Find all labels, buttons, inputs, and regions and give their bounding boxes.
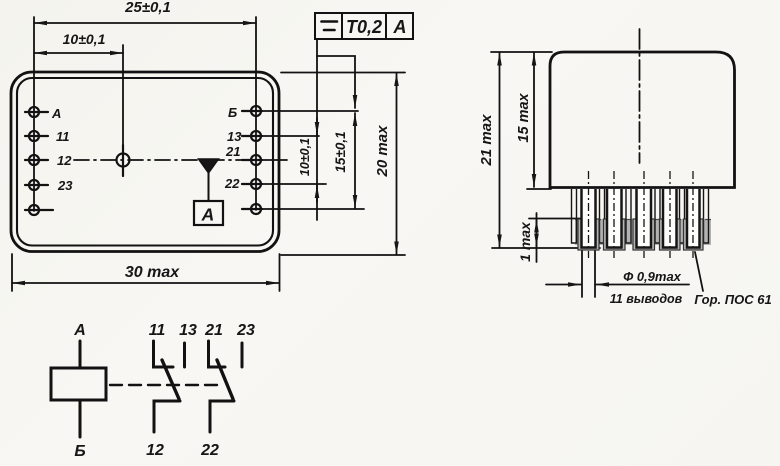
extension line: row 21 short <box>262 159 287 161</box>
contact 22 terminal <box>210 401 234 432</box>
leader to Гор.ПОС 61 <box>695 252 703 291</box>
wire from coil to Б <box>79 400 82 437</box>
dimension 15 max line <box>533 53 535 188</box>
relay body outline (side view) <box>550 52 735 188</box>
svg-text:Ф 0,9max: Ф 0,9max <box>623 269 682 284</box>
extension line: tinned band top <box>529 218 581 220</box>
pin A (top view) <box>25 107 48 117</box>
extension line: bottom row to 15-dim <box>262 208 364 210</box>
svg-text:15±0,1: 15±0,1 <box>333 131 348 172</box>
datum box A <box>194 201 223 225</box>
pin Б (top view) <box>242 106 262 116</box>
svg-text:12: 12 <box>57 153 72 168</box>
pin 23 (top view) <box>25 180 48 190</box>
extension line: body bottom to 20-dim <box>281 254 405 256</box>
svg-text:11: 11 <box>56 129 70 144</box>
pin 21 (top view) <box>242 155 262 165</box>
svg-text:22: 22 <box>224 176 240 191</box>
Ф0,9 extension lines from pin 1 edges <box>581 250 583 297</box>
contact arm 21-22 <box>217 360 233 399</box>
front pin 1 <box>582 189 596 248</box>
svg-text:11: 11 <box>149 322 166 339</box>
svg-text:А: А <box>201 205 215 225</box>
centre cross (mounting centre) <box>117 145 130 176</box>
pin 11 (top view) <box>25 131 48 141</box>
Ф0,9 dimension line right part <box>596 284 689 286</box>
pin centre lines <box>589 171 694 258</box>
dimension 25±0,1 line <box>34 22 256 24</box>
datum triangle A (filled) <box>199 159 219 173</box>
dimension 15±0,1 (vertical) line <box>354 113 356 208</box>
wire: left pin column line <box>33 17 35 211</box>
pin 22 (top view) <box>242 179 262 189</box>
front pin 3 <box>637 189 652 248</box>
front pin 2 <box>607 189 622 248</box>
contact 12 terminal <box>154 401 180 432</box>
centre dash-dot line through pins 12 and 21 <box>74 159 247 161</box>
centre dash-dot line (side view) <box>639 29 641 163</box>
svg-text:23: 23 <box>57 178 73 193</box>
svg-text:23: 23 <box>236 322 255 339</box>
pin bottom-left unlabelled (top view) <box>25 205 53 215</box>
svg-text:11 выводов: 11 выводов <box>610 292 683 306</box>
arrow to row 22 from below <box>316 185 318 202</box>
1 max arrow up <box>536 220 538 233</box>
svg-text:10±0,1: 10±0,1 <box>63 31 106 47</box>
extension line: row 13 to 10-dim <box>262 135 319 137</box>
svg-text:22: 22 <box>200 442 219 459</box>
pin bottom-right unlabelled (top view) <box>242 204 262 214</box>
contact 21 terminal <box>209 341 226 367</box>
svg-text:Б: Б <box>228 105 237 120</box>
svg-text:13: 13 <box>227 129 242 144</box>
extension line: body top (side) <box>491 51 552 53</box>
dimension 10±0,1 (top) line <box>34 52 123 54</box>
svg-text:13: 13 <box>179 322 197 339</box>
svg-text:25±0,1: 25±0,1 <box>124 0 171 16</box>
svg-text:Гор. ПОС 61: Гор. ПОС 61 <box>694 292 771 307</box>
extension line: body top edge to 20-dim <box>281 72 405 74</box>
svg-text:10±0,1: 10±0,1 <box>298 138 312 176</box>
svg-text:Т0,2: Т0,2 <box>346 17 382 37</box>
extension line: row Б to 15-dim <box>262 110 358 112</box>
relay body outline (top view, outer) <box>11 72 279 252</box>
svg-text:А: А <box>51 106 61 121</box>
pin 13 (top view) <box>242 131 262 141</box>
tinned sleeves (grey) front row <box>578 219 703 250</box>
svg-text:А: А <box>73 322 86 339</box>
wire from A to coil <box>79 341 82 368</box>
contact 23 terminal stub <box>241 343 244 367</box>
dimension 10±0,1 (right, vertical) line <box>316 56 318 220</box>
svg-text:21 max: 21 max <box>478 114 495 167</box>
coil winding А-Б rectangle <box>51 368 106 400</box>
1 max arrow down <box>536 234 538 247</box>
dimension 21 max line <box>499 53 501 248</box>
extension line left for 30 max <box>11 254 13 291</box>
tinned sleeves (grey) back row <box>575 219 711 245</box>
leader from tolerance frame to pin row Б <box>317 39 355 108</box>
dimension 20 max (vertical) line <box>396 73 398 255</box>
pin 12 (top view) <box>25 155 48 165</box>
front pin 5 <box>687 189 700 248</box>
extension line: row 22 to 10-dim <box>262 183 326 185</box>
extension line x=123 down to centre cross <box>122 45 124 147</box>
svg-text:21: 21 <box>225 144 240 159</box>
extension line: pin tips <box>492 247 600 249</box>
extension line: body bottom (side) <box>527 188 551 190</box>
dashed actuation line from coil <box>110 384 224 386</box>
back row pins (thin) <box>572 189 709 243</box>
svg-text:А: А <box>393 17 407 37</box>
contact 13 terminal stub <box>183 343 186 367</box>
parallelism symbol in tolerance frame <box>322 22 338 31</box>
svg-text:Б: Б <box>74 443 85 460</box>
dimension 30 max line <box>12 282 279 284</box>
svg-text:15 max: 15 max <box>516 92 532 142</box>
tolerance frame box <box>315 13 413 39</box>
svg-text:20 max: 20 max <box>374 125 391 178</box>
relay body outline (top view, inner) <box>17 78 273 246</box>
svg-text:12: 12 <box>146 442 164 459</box>
wire: right pin column line <box>255 17 257 210</box>
svg-text:21: 21 <box>204 322 223 339</box>
svg-text:1 max: 1 max <box>517 221 533 262</box>
svg-text:30 max: 30 max <box>125 264 180 281</box>
leader from datum triangle to box A <box>208 173 210 201</box>
front pin 4 <box>663 189 677 248</box>
contact arm 11-12 <box>162 360 179 399</box>
Ф0,9 dimension line left part <box>546 284 581 286</box>
arrow to row 13 from above <box>316 118 318 135</box>
dimension 1 max line <box>536 213 538 262</box>
contact 11 terminal <box>154 341 174 367</box>
extension line right for 30 max <box>279 254 281 291</box>
